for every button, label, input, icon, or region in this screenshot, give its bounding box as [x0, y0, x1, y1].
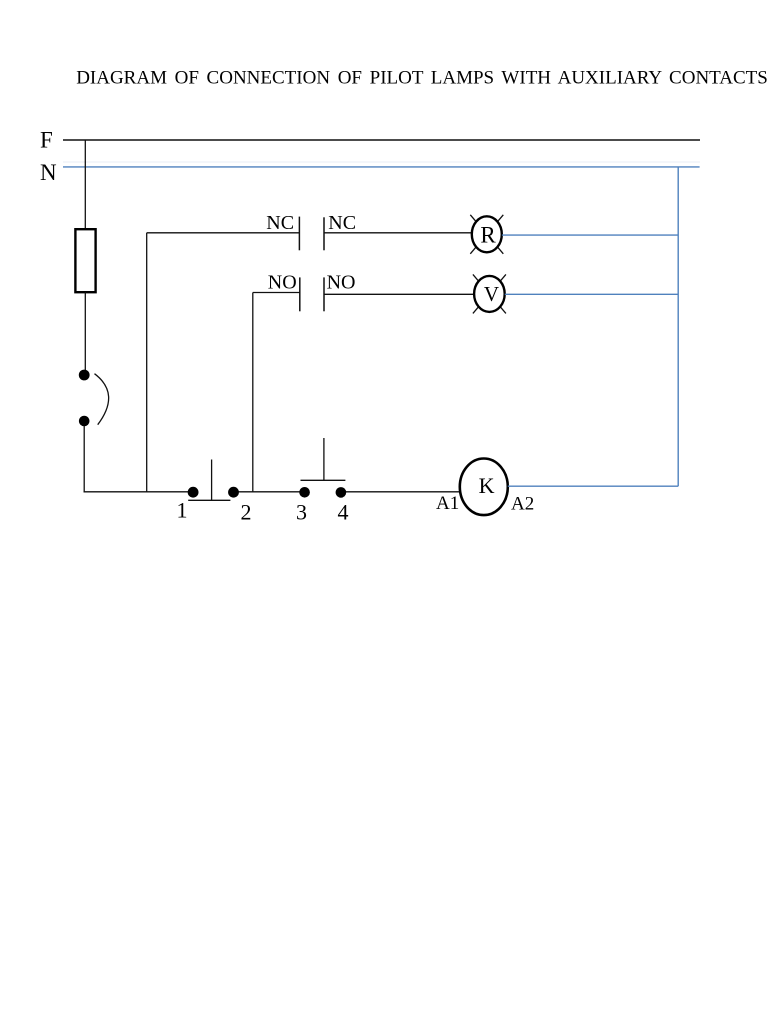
svg-text:4: 4: [338, 500, 349, 525]
svg-text:R: R: [480, 222, 496, 247]
svg-text:A1: A1: [436, 493, 459, 514]
svg-text:F: F: [40, 128, 53, 153]
svg-text:K: K: [479, 473, 495, 498]
svg-text:V: V: [484, 282, 499, 306]
svg-text:1: 1: [177, 497, 188, 522]
svg-text:N: N: [40, 160, 57, 185]
svg-text:2: 2: [241, 500, 252, 525]
svg-text:DIAGRAM OF CONNECTION OF PILOT: DIAGRAM OF CONNECTION OF PILOT LAMPS WIT…: [76, 68, 768, 89]
svg-text:NO: NO: [327, 272, 356, 294]
svg-text:NC: NC: [266, 212, 294, 234]
svg-text:3: 3: [296, 500, 307, 525]
svg-text:NO: NO: [268, 272, 297, 294]
svg-text:A2: A2: [511, 494, 534, 515]
svg-text:NC: NC: [328, 212, 356, 234]
